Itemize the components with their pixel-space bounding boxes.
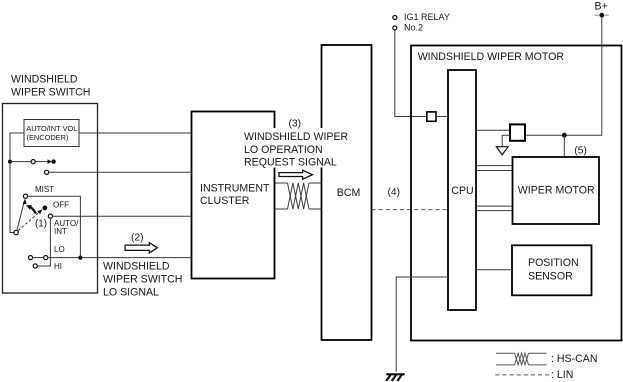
windshield wiper switch lo signal label: [103, 260, 182, 298]
svg-text:(5): (5): [574, 145, 587, 156]
BCM box: [322, 45, 372, 340]
svg-text:(3): (3): [289, 118, 302, 129]
instrument cluster label: [200, 182, 270, 207]
arrow signal (3): [279, 170, 312, 179]
wire row2 to instrument cluster: [49, 171, 192, 173]
wire LO contacts: [33, 257, 44, 259]
svg-text:(1): (1): [35, 218, 47, 229]
B+ terminal: [595, 14, 599, 16]
svg-text:LO SIGNAL: LO SIGNAL: [103, 286, 159, 298]
wire CPU to ground: [396, 277, 448, 372]
rotation arrow (1): [31, 207, 36, 214]
svg-text:INT: INT: [54, 227, 67, 236]
wire junction to wiper motor: [563, 135, 565, 157]
LIN dashed wire BCM to CPU: [372, 209, 449, 211]
svg-text:: HS-CAN: : HS-CAN: [551, 353, 598, 365]
open arrow down: [496, 147, 508, 155]
wire LO to instrument cluster: [48, 257, 192, 259]
HS-CAN twisted pair cluster to BCM : top wire: [275, 182, 288, 184]
contact LO left: [28, 256, 32, 260]
svg-text:WIPER SWITCH: WIPER SWITCH: [11, 87, 90, 99]
node LO junction: [78, 256, 82, 260]
arrow signal (2): [125, 243, 157, 253]
svg-text:CPU: CPU: [451, 185, 473, 197]
HS-CAN twist symbol: [288, 183, 310, 209]
svg-text:B+: B+: [595, 1, 608, 13]
contact row2 open: [45, 170, 49, 174]
svg-text:(4): (4): [388, 187, 401, 198]
node row1 junction: [8, 160, 12, 164]
svg-text:OFF: OFF: [53, 201, 69, 210]
wiper motor box: [513, 157, 600, 224]
legend LIN dashed: [495, 374, 549, 376]
wire encoder to instrument cluster: [79, 132, 192, 134]
legend HS-CAN symbol: [496, 353, 547, 365]
svg-text:LO: LO: [54, 245, 65, 254]
node row1 end dot: [51, 159, 55, 163]
switch arm dashed to OFF: [18, 213, 39, 231]
contact LO right: [44, 256, 48, 260]
instrument cluster box: [192, 112, 275, 279]
wire row1: [10, 161, 31, 163]
wire encoder left to vertical bus: [10, 133, 24, 233]
svg-text:REQUEST SIGNAL: REQUEST SIGNAL: [244, 157, 337, 169]
contact AUTO/INT: [48, 214, 52, 218]
AUTO/INT label: [54, 219, 79, 236]
HS-CAN twisted pair cluster to BCM : bottom wire: [275, 208, 288, 210]
CPU box: [448, 70, 476, 310]
svg-text:IG1 RELAY: IG1 RELAY: [404, 12, 450, 22]
windshield wiper switch box: [3, 104, 98, 294]
encoder label: [26, 124, 77, 142]
svg-text:WIPER SWITCH: WIPER SWITCH: [103, 273, 182, 285]
wiper lo operation request signal label: [244, 131, 349, 169]
svg-text:WINDSHIELD WIPER: WINDSHIELD WIPER: [244, 131, 349, 143]
IG1 relay label: [404, 12, 450, 33]
wire B+ to motor connector: [525, 18, 602, 136]
svg-text:HI: HI: [54, 262, 62, 271]
wire stub to direction arrow: [502, 135, 510, 146]
svg-text:CLUSTER: CLUSTER: [200, 195, 250, 207]
ground: [386, 374, 405, 381]
svg-text:: LIN: : LIN: [551, 369, 573, 381]
svg-text:BCM: BCM: [337, 187, 361, 199]
svg-text:LO OPERATION: LO OPERATION: [244, 144, 323, 156]
wire CPU to power connector: [476, 129, 510, 131]
wire CPU to position sensor: [476, 269, 512, 271]
svg-text:INSTRUMENT: INSTRUMENT: [200, 182, 270, 194]
connector square on IG1 wire: [427, 112, 436, 121]
connector square power: [510, 124, 525, 140]
contact row1 open: [31, 160, 35, 164]
switch arm solid to MIST: [17, 203, 24, 231]
wire row1 arrow: [35, 161, 48, 163]
svg-text:(2): (2): [131, 232, 144, 243]
windshield wiper motor box: [411, 46, 622, 341]
wire AUTO/INT down to HI: [37, 218, 50, 266]
node B+ branch junction: [562, 133, 567, 138]
svg-text:WINDSHIELD WIPER MOTOR: WINDSHIELD WIPER MOTOR: [418, 51, 565, 63]
svg-text:POSITION: POSITION: [528, 257, 579, 269]
svg-text:No.2: No.2: [404, 23, 423, 33]
svg-text:WINDSHIELD: WINDSHIELD: [11, 74, 78, 86]
svg-text:WIPER MOTOR: WIPER MOTOR: [518, 185, 595, 197]
svg-text:(ENCODER): (ENCODER): [27, 133, 69, 142]
svg-text:SENSOR: SENSOR: [528, 270, 573, 282]
encoder box (AUTO/INT VOL): [24, 120, 79, 147]
wire AUTO/INT to instrument cluster: [53, 215, 192, 217]
contact HI: [33, 264, 37, 268]
windshield wiper switch label: [11, 74, 90, 99]
position sensor box: [512, 245, 592, 295]
node OFF dot: [43, 206, 48, 211]
wire MIST to LO bus: [28, 196, 81, 257]
wire pair CPU to wiper motor upper: [476, 165, 513, 167]
svg-text:WINDSHIELD: WINDSHIELD: [103, 260, 170, 272]
wire connector to CPU: [436, 116, 448, 118]
svg-text:MIST: MIST: [35, 185, 54, 194]
white mask behind (3) text: [243, 128, 347, 168]
pivot contact: [14, 230, 18, 234]
svg-text:AUTO/INT VOL: AUTO/INT VOL: [26, 124, 77, 133]
wire IG1 relay to CPU: [395, 30, 427, 117]
wire pair CPU to wiper motor lower: [476, 205, 513, 207]
position sensor label: [528, 257, 579, 282]
contact MIST: [23, 194, 27, 198]
IG1 relay terminal circles: [393, 16, 397, 20]
